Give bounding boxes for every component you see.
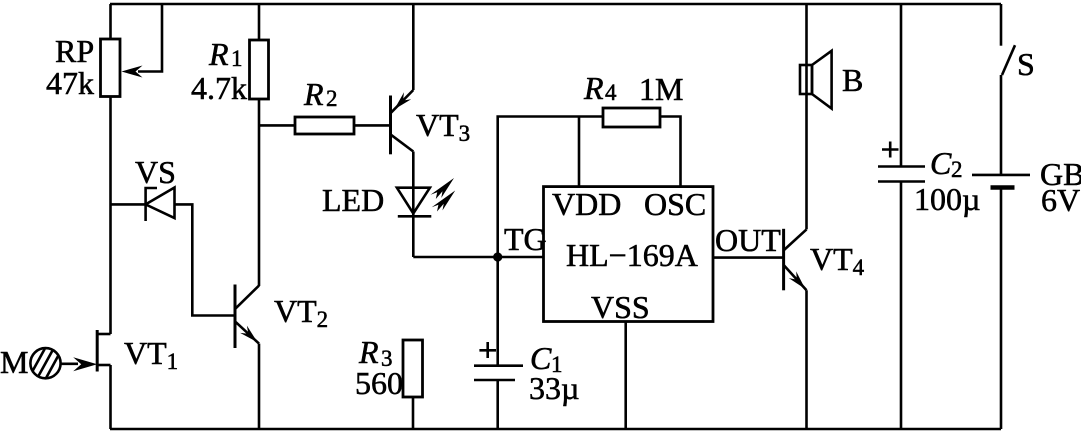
svg-text:2: 2 [951, 157, 963, 182]
wire VDD drop [578, 117, 581, 187]
wire VT4 emitter to bottom rail [805, 290, 808, 429]
VT2 emitter arrowhead [240, 326, 257, 343]
IC U1 HL-169A box [544, 187, 714, 322]
svg-text:100µ: 100µ [914, 181, 980, 217]
speaker B body [800, 65, 812, 94]
transistor VT4 base bar [782, 229, 785, 290]
LED triangle [397, 188, 430, 214]
potentiometer RP body [101, 39, 121, 97]
wire R2 to VT3 base [354, 124, 391, 127]
resistor R2 body [295, 117, 354, 134]
wire C1 to bottom rail [496, 380, 499, 429]
svg-text:4.7k: 4.7k [191, 70, 247, 106]
svg-text:VT1: VT1 [124, 335, 178, 374]
svg-text:R: R [208, 36, 229, 72]
svg-text:1M: 1M [639, 71, 683, 107]
resistor R1 body [250, 40, 269, 99]
C1 bottom plate [474, 379, 515, 382]
VT1 drain lead [97, 333, 110, 336]
capacitor C2 wire top [900, 4, 903, 167]
wire VT2 emitter to bottom rail [258, 344, 261, 429]
wire VSS to bottom rail [624, 322, 627, 430]
C1 plus sign [479, 342, 496, 358]
VT3 emitter arrowhead (points into base) [394, 92, 411, 109]
wire R1/R2 junction to R2 [259, 124, 295, 127]
wire speaker column (top rail to VT4 collector) [805, 4, 808, 229]
svg-text:47k: 47k [46, 65, 94, 101]
svg-text:RP: RP [55, 33, 94, 69]
VT2 collector diagonal [236, 286, 259, 309]
wire R4 right to OSC [660, 117, 681, 187]
svg-text:VS: VS [135, 154, 176, 190]
svg-text:VT2: VT2 [274, 293, 328, 332]
svg-text:4: 4 [605, 80, 617, 105]
capacitor C1 wire top [496, 257, 499, 366]
wire left column mid (RP to VT1 drain) [109, 97, 112, 335]
svg-text:LED: LED [322, 182, 384, 218]
transistor VT3 (PNP) base bar [389, 96, 392, 155]
svg-text:R: R [303, 76, 324, 112]
wire left column upper (top rail to RP) [109, 4, 112, 40]
VT3 emitter diagonal [391, 90, 413, 113]
svg-text:6V: 6V [1041, 182, 1080, 218]
svg-text:R: R [583, 70, 604, 106]
svg-text:B: B [842, 62, 863, 98]
VT4 emitter arrowhead [789, 271, 805, 289]
wire VS right lead to VT2 base [175, 204, 236, 315]
VS triangle [146, 188, 175, 219]
C2 top plate [878, 165, 925, 168]
svg-text:VDD: VDD [552, 186, 621, 222]
C2 plus sign [882, 142, 899, 158]
wire VS left lead [111, 203, 146, 206]
wire R1 top [258, 4, 261, 40]
svg-text:M: M [0, 344, 28, 380]
svg-text:560: 560 [355, 365, 403, 401]
battery GB short plate [991, 185, 1015, 190]
battery GB long plate [972, 174, 1030, 177]
transistor VT1 (JFET) channel bar [96, 330, 99, 372]
wire bottom rail [110, 428, 1001, 431]
svg-text:TG: TG [504, 221, 547, 257]
VT2 emitter diagonal [236, 322, 259, 344]
wire VT3 emitter to top rail [412, 4, 415, 90]
resistor R4 body [603, 108, 660, 127]
wire R3 bottom to rail [412, 397, 415, 429]
wire R1 bottom to VT2 collector [258, 99, 261, 286]
switch S lever [1002, 45, 1015, 75]
wire RP wiper from top rail [138, 4, 162, 72]
wire TG node horizontal [413, 256, 543, 259]
svg-text:2: 2 [326, 86, 338, 111]
svg-text:33µ: 33µ [529, 370, 579, 406]
wire OUT [713, 256, 784, 259]
resistor R3 body [403, 340, 423, 397]
wire VT3 collector to LED [412, 152, 415, 258]
arrowhead into VT1 gate [73, 357, 97, 371]
speaker B horn [812, 51, 832, 109]
svg-text:VSS: VSS [591, 289, 650, 325]
wire VT1 source to bottom rail [109, 365, 112, 429]
VT4 emitter diagonal [784, 265, 807, 290]
LED light arrow 2 [432, 191, 456, 212]
RP wiper arrowhead [122, 66, 143, 78]
svg-text:VT4: VT4 [810, 241, 865, 280]
svg-text:VT3: VT3 [416, 107, 470, 146]
wire C2 to bottom rail [900, 182, 903, 430]
VT3 collector diagonal [391, 135, 413, 152]
svg-text:HL−169A: HL−169A [566, 237, 698, 273]
LED cathode bar [398, 215, 432, 218]
wire M arrow to VT1 gate [61, 362, 79, 365]
svg-text:OUT: OUT [715, 222, 781, 258]
wire battery to bottom rail [1000, 189, 1003, 429]
LED light arrow 1 [431, 178, 455, 199]
wire switch to battery [1000, 75, 1003, 175]
wire TG node up to R4 rail [498, 117, 603, 258]
transistor VT2 base bar [234, 285, 237, 349]
C1 top plate [474, 364, 523, 367]
VS cathode bar with hook [146, 188, 157, 221]
microphone M circle [30, 348, 60, 378]
svg-text:C: C [930, 145, 952, 181]
svg-text:OSC: OSC [644, 186, 706, 222]
svg-text:S: S [1017, 46, 1035, 82]
C2 bottom plate [878, 180, 925, 183]
wire right column top (rail to switch) [1000, 4, 1003, 46]
VT4 collector diagonal [784, 229, 807, 250]
node TG junction dot [493, 252, 502, 261]
svg-text:1: 1 [231, 46, 243, 71]
wire top rail [110, 3, 1001, 6]
microphone hatch lines [33, 349, 58, 378]
VT1 source lead [97, 364, 110, 367]
